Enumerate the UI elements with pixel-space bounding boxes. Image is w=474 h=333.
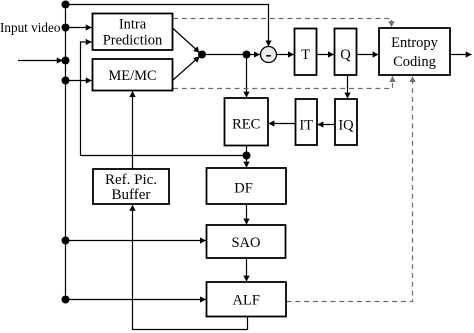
svg-text:IT: IT [299, 118, 313, 134]
wire Ref Pic Buffer to ME/MC [132, 91, 134, 169]
wire DF to SAO [246, 204, 248, 224]
junction node top corner [62, 1, 70, 9]
wire SAO to ALF [246, 258, 248, 281]
wire reconstruction feedback to Intra Prediction [81, 42, 247, 156]
block ALF [207, 282, 287, 317]
svg-text:Coding: Coding [393, 54, 436, 70]
dashed wire intra mode to Entropy Coding top [173, 19, 392, 28]
block Ref Pic Buffer [93, 169, 169, 204]
block Entropy Coding [379, 28, 450, 75]
svg-text:Input video: Input video [0, 20, 61, 35]
block Intra Prediction [93, 14, 173, 51]
wire subtractor to T [277, 54, 294, 56]
block DF [207, 168, 287, 204]
svg-text:SAO: SAO [231, 235, 260, 251]
svg-text:Prediction: Prediction [103, 33, 163, 49]
wire input bus vertical [65, 5, 67, 300]
wire IQ to IT [318, 124, 335, 126]
svg-text:DF: DF [234, 181, 253, 197]
block REC [225, 98, 269, 146]
wire Intra Prediction to mode node [173, 29, 200, 53]
dashed wire motion info to Entropy Coding bottom [173, 76, 393, 88]
wire prediction down to REC [246, 55, 248, 98]
junction node input tap [62, 57, 70, 65]
wire to SAO [66, 240, 206, 242]
wire top bypass to subtractor [66, 5, 269, 47]
wire to ALF [66, 299, 206, 301]
block ME/MC [93, 59, 173, 91]
wire Q to IQ [347, 75, 349, 98]
junction node prediction select [198, 51, 206, 59]
wire to Intra Prediction [66, 27, 92, 29]
svg-text:Entropy: Entropy [391, 35, 438, 51]
junction node rec output [243, 152, 251, 160]
wire prediction to subtractor [202, 54, 260, 56]
block IQ [335, 99, 357, 145]
svg-text:ALF: ALF [232, 293, 259, 309]
wire REC to DF [246, 146, 248, 168]
svg-text:Buffer: Buffer [112, 187, 151, 203]
junction node residual tap [243, 51, 251, 59]
wire Entropy Coding output [450, 54, 472, 56]
svg-text:T: T [301, 47, 310, 63]
junction node intra tap [62, 24, 70, 32]
wire T to Q [317, 54, 334, 56]
svg-text:Q: Q [340, 47, 351, 63]
block T [295, 29, 317, 76]
block SAO [207, 225, 286, 258]
dashed wire ALF params to Entropy Coding bottom [287, 76, 413, 301]
wire to ME/MC [66, 80, 92, 82]
junction node sao tap [62, 237, 70, 245]
wire ALF to Ref Pic Buffer [133, 205, 248, 330]
subtractor [261, 47, 277, 63]
svg-text:Ref. Pic.: Ref. Pic. [105, 172, 157, 188]
junction node memc tap [62, 77, 70, 85]
junction node alf tap [62, 296, 70, 304]
svg-text:IQ: IQ [338, 118, 354, 134]
wire left input arrow [18, 60, 63, 62]
wire Q to Entropy Coding [357, 54, 379, 56]
block Q [335, 29, 357, 76]
svg-text:REC: REC [232, 117, 260, 133]
wire IT to REC [269, 123, 296, 125]
block IT [296, 99, 318, 145]
svg-text:ME/MC: ME/MC [108, 68, 156, 84]
wire ME/MC to mode node [173, 57, 200, 81]
svg-text:Intra: Intra [119, 17, 147, 33]
